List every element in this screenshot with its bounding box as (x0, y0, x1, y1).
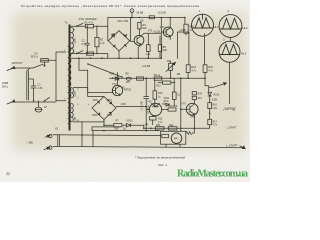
svg-text:НL1: НL1 (214, 25, 220, 29)
resistor R3 (138, 23, 141, 29)
svg-text:VD13: VD13 (127, 120, 134, 123)
fuse FU2 (149, 16, 154, 19)
bridge VD1-VD4 (108, 31, 130, 51)
transformer pin numbers (64, 30, 80, 123)
bridge VD5-VD8 (92, 97, 116, 120)
mains plug pin bottom (7, 102, 12, 104)
svg-text:АР: АР (145, 123, 149, 126)
svg-text:+12,6В: +12,6В (142, 64, 151, 68)
svg-text:НL2: НL2 (243, 26, 249, 30)
lamp HL1 (192, 14, 214, 36)
svg-text:0,5: 0,5 (82, 43, 86, 46)
label +12,6V (142, 64, 151, 68)
svg-text:VT6: VT6 (181, 103, 186, 106)
node dots row1 row2 (76, 26, 98, 55)
svg-text:Д7Ж: Д7Ж (164, 101, 170, 103)
svg-text:≈15В: ≈15В (74, 91, 77, 97)
svg-text:VT5: VT5 (147, 100, 152, 103)
capacitor C4 line (144, 78, 149, 130)
svg-text:VT3: VT3 (112, 83, 117, 86)
resistor R3a on row2 (87, 52, 94, 55)
svg-text:0,6В: 0,6В (121, 103, 126, 106)
resistor R11 (114, 124, 122, 127)
svg-text:VD10: VD10 (213, 93, 220, 96)
label VT6 (181, 103, 186, 106)
svg-text:~ 36В: ~ 36В (27, 142, 34, 145)
resistor R16 (208, 103, 212, 109)
diagonal switch link (88, 64, 122, 77)
svg-text:„ЗАПУСК": „ЗАПУСК" (11, 62, 23, 65)
svg-text:RadioMaster.com.ua: RadioMaster.com.ua (177, 169, 248, 180)
svg-text:VD8: VD8 (107, 114, 112, 117)
thermistor (126, 77, 131, 80)
wire lamp feed verticals (177, 32, 189, 59)
switch SA1 (33, 64, 43, 68)
svg-text:-0,5В: -0,5В (211, 99, 217, 102)
thermal relay (39, 97, 50, 106)
svg-text:МП26: МП26 (124, 89, 131, 92)
bottom bus A (144, 127, 210, 129)
wire switch to fuse (44, 62, 46, 65)
node dots top bus (131, 17, 186, 19)
wire plug to switch (12, 67, 34, 69)
resistor R4 (147, 45, 151, 52)
wire left vertical (56, 52, 66, 101)
node 1 (circled) (130, 9, 134, 13)
transformer lower-left winding (68, 103, 71, 124)
label C5 (107, 100, 111, 103)
resistor R1 (85, 25, 93, 28)
label 220V 50Hz (2, 81, 8, 89)
wire VT1 emitter down (138, 45, 141, 58)
page background (0, 0, 250, 182)
wire row2 (71, 54, 108, 59)
resistor R5 (158, 45, 162, 52)
resistor R9 (154, 77, 162, 80)
wire regulator loop (88, 70, 118, 92)
transistor VT5 (149, 103, 161, 115)
svg-text:Рис. 1: Рис. 1 (159, 163, 168, 167)
transformer secondary low winding (71, 103, 73, 121)
svg-text:R16 56: R16 56 (170, 105, 178, 108)
start terminal labels (226, 126, 238, 147)
resistor R13 (172, 92, 176, 99)
svg-text:+ „СТАРТ": + „СТАРТ" (226, 144, 238, 147)
svg-text:0,25: 0,25 (38, 87, 43, 90)
figure caption (159, 163, 168, 167)
svg-text:22: 22 (6, 172, 10, 176)
diode VD12 (126, 124, 130, 127)
diode VD9 on bus (115, 77, 119, 80)
svg-text:ВП1-1: ВП1-1 (31, 56, 39, 59)
wire top bus (108, 17, 185, 19)
wire bus2 drop left (79, 58, 88, 70)
transistor VT1 (134, 35, 144, 45)
transformer T1 core (69, 25, 71, 131)
resistor R2 (95, 37, 99, 46)
wire fuse to transformer (41, 59, 56, 61)
resistor R21 on busA (156, 127, 165, 130)
svg-text:R21: R21 (156, 124, 161, 127)
wire row1 to bridge (94, 18, 108, 41)
wire lamp3 down (charge) (229, 62, 231, 103)
wire bridge right to top bus (130, 18, 134, 42)
resistor R18 (186, 65, 190, 73)
svg-text:R22: R22 (169, 124, 174, 127)
svg-text:≈27В: ≈27В (74, 38, 77, 44)
svg-text:-25,6В: -25,6В (136, 10, 144, 14)
svg-text:VT2: VT2 (160, 26, 165, 29)
main bus2 (70, 57, 162, 59)
resistor R14 boxes above VT7 (192, 92, 196, 95)
resistor R17 (208, 119, 212, 124)
switch blade row2 (77, 51, 84, 54)
svg-text:200: 200 (163, 49, 168, 52)
wire VT7 emitter to busA (193, 118, 195, 128)
capacitor C2 (85, 26, 89, 53)
potentiometer R6 (169, 63, 173, 70)
transistor VT2 (163, 27, 173, 37)
label +0,2V (153, 31, 160, 34)
svg-text:910: 910 (143, 27, 148, 30)
lamp HL2 (219, 15, 242, 38)
ammeter box (161, 131, 186, 144)
resistor R10 (153, 91, 157, 99)
winding voltage labels (74, 38, 77, 121)
mains cord pair (12, 68, 66, 102)
resistor R19 (203, 65, 207, 73)
terminal arrow (240, 146, 246, 149)
svg-text:VD9: VD9 (109, 73, 114, 76)
resistor R20 top right (184, 24, 188, 33)
wire meter to bus (166, 128, 194, 147)
diode VD11 (166, 103, 169, 106)
diode VD10 (208, 92, 212, 102)
wire bridge right (116, 106, 146, 108)
transformer secondary mid winding (71, 88, 74, 98)
ammeter shunt (162, 134, 169, 137)
svg-text:VD5: VD5 (93, 99, 98, 102)
svg-text:R9 1к: R9 1к (154, 74, 161, 77)
svg-text:-0В: -0В (176, 73, 180, 76)
svg-text:R12: R12 (157, 86, 162, 88)
label charge (223, 107, 237, 111)
wire lower mid (104, 125, 144, 128)
svg-text:220В: 220В (2, 81, 8, 85)
label VD11 (122, 88, 170, 104)
svg-text:+0,5В: +0,5В (179, 29, 186, 32)
wire bridge bottom (118, 51, 120, 58)
fuse FU1 (41, 59, 49, 62)
label -25,6V (136, 10, 144, 14)
svg-text:VD11: VD11 (164, 98, 170, 100)
svg-text:VT1: VT1 (148, 29, 153, 32)
title text (21, 4, 199, 8)
wire right column (205, 86, 209, 92)
transistor VT7 (186, 103, 198, 115)
svg-text:НL3: НL3 (241, 52, 247, 56)
cord pair bottom (58, 135, 60, 146)
resistor R16h (168, 108, 176, 111)
svg-text:560: 560 (114, 128, 119, 131)
svg-text:50Гц: 50Гц (2, 85, 8, 89)
svg-text:Устройство зарядно-пусковое: Устройство зарядно-пусковое „Электроника… (21, 4, 199, 8)
switch blade row1 (77, 23, 84, 26)
label +15,6V (158, 10, 167, 14)
wire transformer to bridge bottom (73, 120, 104, 122)
wire VT1 collector node (141, 33, 161, 45)
ammeter PA (171, 133, 182, 144)
svg-text:1Р: 1Р (44, 106, 47, 109)
resistor R8 (137, 77, 144, 80)
svg-text:„ТОК ЗАРЯДА": „ТОК ЗАРЯДА" (78, 17, 97, 21)
resistor R22 on busA (168, 127, 177, 130)
transistor VT3 (112, 85, 122, 95)
long bottom bus (53, 146, 244, 147)
svg-text:РА: РА (174, 137, 178, 141)
svg-text:+15,6В: +15,6В (158, 10, 167, 14)
wire lamp1 drop (185, 18, 189, 65)
svg-text:R1 4,7к: R1 4,7к (85, 22, 94, 25)
left verticals bottom (82, 122, 93, 147)
relay contact box (92, 127, 120, 131)
svg-text:VD6: VD6 (92, 114, 97, 117)
resistor R12h (158, 82, 175, 84)
label current switch (78, 17, 97, 21)
svg-text:510: 510 (198, 97, 203, 100)
wire R18 R19 to bus3 (188, 72, 205, 85)
svg-text:„ЗАРЯД": „ЗАРЯД" (223, 107, 237, 111)
wire lamp2 to lamp3 (229, 37, 231, 41)
svg-text:* Подстроечный тип металлопл: * Подстроечный тип металлоплёночный (135, 155, 186, 159)
transformer secondary top winding (71, 27, 74, 53)
lamp HL3 (219, 41, 240, 62)
start switch arrow (209, 83, 227, 87)
bottom wire B (92, 130, 159, 132)
resistor below VT5 (150, 117, 157, 120)
wire VT2 base (161, 18, 166, 59)
wire bridge bottom down (103, 120, 105, 126)
bottom wire C (53, 134, 161, 137)
wire VT7 base line (180, 78, 182, 131)
transformer primary winding (68, 46, 71, 98)
output connector pins (45, 134, 52, 137)
footnote (135, 155, 186, 159)
svg-text:VD1-VD4: VD1-VD4 (117, 19, 129, 23)
regulation range label (142, 101, 144, 111)
capacitor C1 (29, 79, 36, 101)
svg-text:R14: R14 (198, 92, 203, 95)
mains plug pin top (7, 69, 12, 71)
wire transformer to bridge top (73, 88, 104, 97)
wire row1 (71, 25, 85, 27)
svg-text:ВН: ВН (126, 81, 130, 84)
wire lamp drop 2 (204, 34, 206, 65)
main bus3 (110, 77, 206, 79)
svg-text:1,3-13,5В: 1,3-13,5В (142, 101, 144, 111)
page number (6, 172, 10, 176)
svg-text:- „СТАРТ": - „СТАРТ" (226, 126, 237, 129)
